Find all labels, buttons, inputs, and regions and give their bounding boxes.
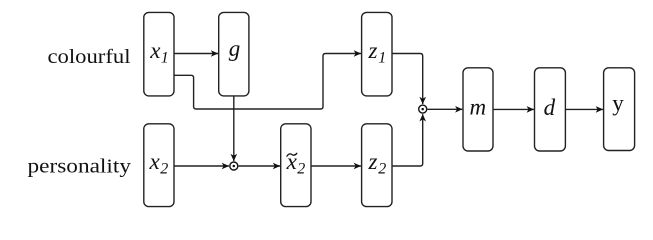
wire m to d [493,108,534,110]
svg-text:personality: personality [28,156,132,178]
wire x1 to z1 (down, across, up) [174,54,361,110]
odot 1 [230,162,238,170]
svg-text:g: g [229,36,241,61]
svg-text:2: 2 [160,160,168,177]
svg-text:x: x [149,38,161,63]
svg-text:d: d [544,95,556,120]
svg-text:m: m [470,95,487,120]
svg-text:2: 2 [378,160,386,177]
wire x-tilde-2 to z2 [311,165,361,167]
box x1 [144,12,174,96]
svg-text:2: 2 [297,160,305,177]
odot 2 [419,105,427,113]
svg-text:z: z [368,38,378,63]
box y [604,68,635,151]
svg-text:x: x [286,149,298,174]
wire odot2 to m [427,108,462,110]
wire z2 to odot2 (right then up) [392,114,423,166]
svg-text:x: x [149,149,161,174]
box g [219,12,249,96]
box x-tilde-2 [281,124,311,207]
box d [535,68,566,151]
wire z1 to odot2 (right then down) [392,54,423,105]
svg-text:colourful: colourful [48,46,131,68]
box z1 [362,12,392,96]
svg-text:z: z [368,149,378,174]
wire g down to odot1 [233,96,235,161]
box x2 [144,124,174,207]
wire d to y [565,108,603,110]
wire x1 to g [174,53,218,55]
svg-text:y: y [612,91,624,116]
svg-text:1: 1 [161,49,169,66]
box z2 [362,124,392,207]
wire odot1 to x-tilde-2 [239,165,281,167]
box m [463,68,493,151]
wire x2 to odot1 [174,165,229,167]
svg-text:1: 1 [378,49,386,66]
